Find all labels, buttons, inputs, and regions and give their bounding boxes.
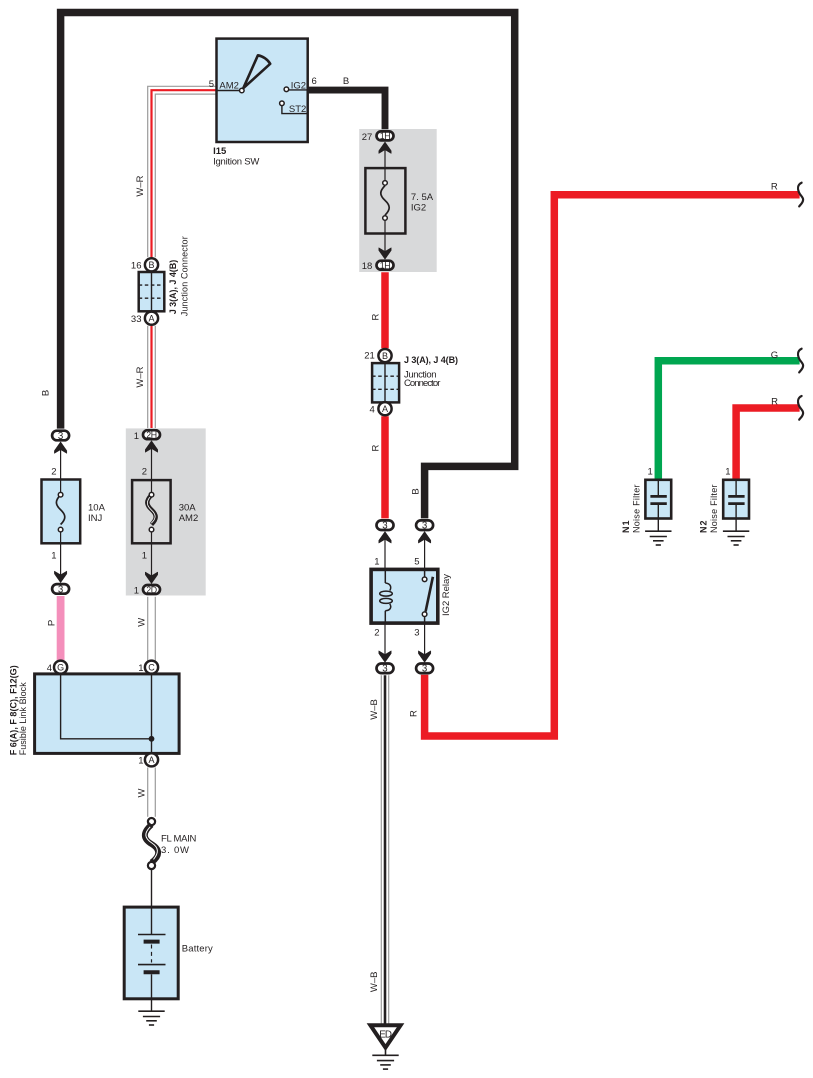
svg-text:5: 5 [209, 79, 214, 90]
fuse 7.5A IG2 out line [379, 234, 391, 260]
label J 3(A), J 4(B) Junction Connector (right) [404, 355, 458, 389]
fuse 7.5A IG2 feed line [379, 142, 391, 168]
svg-text:18: 18 [362, 261, 373, 272]
svg-text:G: G [771, 350, 778, 361]
svg-text:3. 0W: 3. 0W [161, 845, 189, 856]
noise filter N2 ground [723, 531, 749, 545]
svg-text:3: 3 [382, 521, 387, 532]
wire R (noise filter N2 to harness) [736, 408, 800, 481]
wire W-R (ignition AM2 to junction connector B) [148, 86, 217, 257]
svg-text:Noise Filter: Noise Filter [709, 485, 719, 534]
wire P (fuse INJ to fusible link block G) [57, 596, 65, 660]
svg-text:2: 2 [142, 467, 147, 478]
svg-text:W–R: W–R [135, 366, 146, 387]
wire G (noise filter N1 to harness) [658, 361, 799, 481]
svg-text:W–B: W–B [369, 972, 380, 993]
wire B bus (battery + to ignition and relay) [61, 13, 515, 519]
svg-text:IG2: IG2 [411, 202, 426, 213]
battery body [124, 907, 178, 999]
wire R (junction connector A to relay connector) [381, 416, 389, 518]
svg-text:3: 3 [422, 664, 427, 675]
junction connector left: pin A [131, 312, 158, 325]
svg-text:N 1: N 1 [621, 521, 631, 534]
svg-text:1H: 1H [380, 261, 390, 271]
wire G break symbol [798, 349, 803, 373]
fuse 10A INJ pin 2 [51, 442, 67, 480]
connector 3 (battery wire to fuse INJ) [52, 431, 69, 442]
svg-text:B: B [148, 260, 154, 270]
label I15 Ignition SW [213, 146, 259, 168]
wire (FL MAIN to battery) [151, 870, 153, 907]
svg-text:Noise Filter: Noise Filter [631, 485, 641, 534]
relay pin 3 lead [414, 623, 431, 662]
relay IG2 body [371, 569, 438, 623]
svg-text:Fusible Link Block: Fusible Link Block [18, 682, 28, 756]
svg-text:J 3(A), J 4(B): J 3(A), J 4(B) [168, 260, 178, 315]
svg-text:B: B [411, 488, 422, 494]
wire R (fuse IG2 to junction connector B) [381, 272, 389, 348]
svg-text:Junction Connector: Junction Connector [179, 236, 189, 316]
label 10A INJ [88, 503, 106, 524]
battery ground [138, 999, 164, 1025]
ground ED symbol [372, 1048, 398, 1070]
svg-text:1: 1 [138, 663, 143, 674]
noise filter N1 ground [645, 531, 671, 545]
label FL MAIN 3.0W [161, 834, 197, 856]
connector 3 (relay pin 1) [377, 520, 394, 531]
wire B (ignition SW IG2 pin 6 to fuse 1H) [308, 90, 386, 129]
connector 3 (fuse INJ to fusible link) [52, 584, 69, 595]
svg-text:2H: 2H [146, 430, 156, 440]
fusible link FL MAIN [145, 818, 158, 869]
svg-text:1: 1 [142, 551, 147, 562]
svg-text:B: B [382, 351, 388, 361]
relay pin 1 lead [374, 532, 391, 570]
label 30A AM2 [179, 503, 199, 524]
svg-text:AM2: AM2 [179, 513, 199, 524]
fusible link block pin G [47, 661, 67, 674]
svg-text:R: R [771, 397, 778, 408]
ignition SW pin ST2 [280, 101, 308, 115]
ignition SW key wedge [243, 55, 270, 88]
svg-text:W: W [137, 788, 148, 797]
junction connector right: pin A [370, 402, 392, 415]
svg-text:R: R [370, 313, 381, 320]
junction connector J3(A) J4(B) right: pin B [364, 349, 391, 362]
svg-text:2: 2 [51, 467, 56, 478]
ignition switch I15 body [217, 39, 308, 142]
relay pin 5 lead [414, 532, 431, 570]
svg-text:ED: ED [379, 1029, 392, 1040]
svg-text:W–B: W–B [369, 699, 380, 720]
svg-text:3: 3 [422, 521, 427, 532]
svg-text:1: 1 [648, 466, 653, 477]
wire W-R (junction connector A to fuse block 2H) [148, 326, 156, 428]
wire W (fuse block 2D to fusible link C) [148, 597, 156, 661]
svg-text:27: 27 [362, 132, 373, 143]
connector 2D (fuse block bottom) [134, 585, 160, 597]
connector 3 (relay pin 2 out) [377, 664, 394, 675]
ground ED triangle [370, 1025, 400, 1047]
svg-text:4: 4 [370, 405, 375, 416]
ignition SW pin 5 AM2 [209, 79, 244, 93]
svg-text:3: 3 [58, 584, 63, 595]
connector 1H pin 18 (fuse IG2 bottom) [362, 261, 394, 273]
fuse 7.5A IG2 body [365, 168, 405, 233]
svg-text:IG2 Relay: IG2 Relay [441, 574, 452, 616]
svg-text:1: 1 [134, 431, 139, 442]
svg-text:R: R [771, 182, 778, 193]
junction connector J3(A) J4(B) left: pin B [131, 258, 158, 271]
svg-text:1: 1 [51, 551, 56, 562]
svg-text:1H: 1H [380, 131, 390, 141]
fusible link block pin A [138, 753, 158, 767]
svg-text:1: 1 [374, 556, 379, 567]
svg-text:A: A [382, 404, 388, 414]
relay switch contact [422, 569, 433, 623]
fuse 30A AM2 body [132, 480, 171, 543]
svg-text:IG2: IG2 [291, 81, 306, 92]
svg-text:6: 6 [312, 76, 317, 87]
wire R break symbol (right edge top) [798, 183, 803, 207]
svg-text:A: A [148, 314, 154, 324]
label N 2 Noise Filter (rotated) [699, 485, 720, 534]
junction connector right body [372, 363, 399, 402]
fusible link block body [35, 674, 180, 754]
label N 1 Noise Filter (rotated) [621, 485, 642, 534]
svg-text:1: 1 [138, 756, 143, 767]
svg-text:Ignition SW: Ignition SW [213, 157, 259, 168]
svg-text:C: C [148, 663, 155, 673]
svg-text:R: R [408, 710, 419, 717]
fuse 30A AM2 pin 1 [142, 543, 158, 583]
svg-text:N 2: N 2 [699, 521, 709, 534]
fuse 10A INJ pin 1 [51, 543, 67, 582]
fuse 10A INJ body [42, 480, 81, 544]
svg-text:3: 3 [414, 628, 419, 639]
svg-text:FL MAIN: FL MAIN [161, 834, 197, 845]
svg-text:7. 5A: 7. 5A [411, 192, 434, 203]
svg-text:1: 1 [134, 586, 139, 597]
svg-text:1: 1 [725, 466, 730, 477]
svg-text:AM2: AM2 [219, 81, 239, 92]
relay coil [380, 569, 393, 623]
svg-text:W: W [137, 618, 148, 627]
svg-text:33: 33 [131, 314, 142, 325]
noise filter N2 body [723, 480, 749, 531]
svg-text:INJ: INJ [88, 513, 103, 524]
fuse block shading (7.5A IG2) [359, 129, 437, 272]
svg-text:16: 16 [131, 260, 142, 271]
fusible link block pin C [138, 661, 158, 674]
junction connector left body [139, 272, 165, 311]
noise filter N1 body [645, 480, 671, 531]
wire R (relay pin 3 to harness, long run) [425, 195, 800, 736]
fuse block shading (30A AM2) [126, 428, 206, 595]
svg-text:R: R [370, 444, 381, 451]
connector 1H pin 27 (fuse IG2 top) [362, 131, 394, 143]
label 7.5A IG2 [411, 192, 434, 213]
ignition SW pin 6 IG2 [284, 76, 317, 92]
svg-text:I15: I15 [213, 146, 227, 157]
svg-text:B: B [41, 390, 52, 396]
connector 3 (relay pin 5) [416, 520, 433, 531]
fuse 30A AM2 pin 2 [142, 441, 158, 480]
svg-text:W–R: W–R [135, 175, 146, 196]
connector 2H (fuse block top) [134, 430, 160, 442]
svg-text:Battery: Battery [182, 943, 213, 954]
svg-text:B: B [343, 76, 349, 87]
svg-text:3: 3 [58, 431, 63, 442]
svg-text:5: 5 [414, 556, 419, 567]
svg-text:2: 2 [374, 628, 379, 639]
svg-text:G: G [57, 663, 64, 673]
svg-text:2D: 2D [146, 585, 156, 595]
svg-text:21: 21 [364, 351, 375, 362]
svg-text:J 3(A), J 4(B): J 3(A), J 4(B) [404, 355, 458, 365]
connector 3 (relay pin 3 out) [416, 664, 433, 675]
svg-text:Connector: Connector [404, 378, 440, 389]
wire R break symbol (lower) [798, 396, 803, 420]
svg-text:A: A [148, 755, 154, 765]
svg-text:4: 4 [47, 663, 52, 674]
svg-text:ST2: ST2 [289, 104, 306, 115]
wire W (fusible link A to FL MAIN) [148, 768, 156, 817]
relay pin 2 lead [374, 623, 391, 662]
svg-text:3: 3 [382, 664, 387, 675]
svg-text:P: P [47, 620, 58, 626]
wire W-B (relay pin 2 to ground ED) [381, 675, 388, 1024]
